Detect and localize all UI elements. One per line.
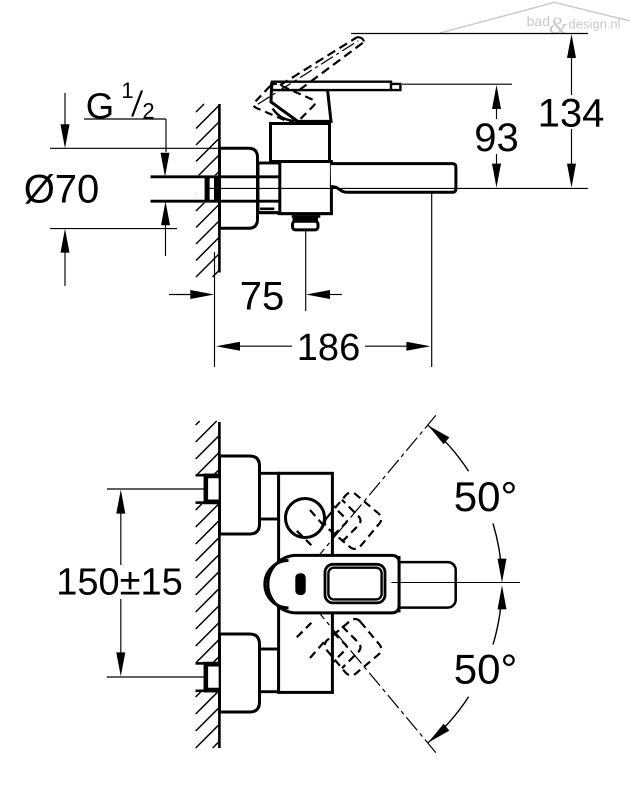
svg-text:1: 1 xyxy=(121,78,133,103)
svg-text:Ø70: Ø70 xyxy=(24,167,100,211)
svg-text:50°: 50° xyxy=(454,645,518,692)
svg-text:150±15: 150±15 xyxy=(56,561,183,603)
svg-text:134: 134 xyxy=(538,91,605,135)
svg-text:design.nl: design.nl xyxy=(569,17,621,32)
svg-text:75: 75 xyxy=(240,275,285,319)
svg-text:2: 2 xyxy=(142,99,154,124)
svg-text:&: & xyxy=(549,14,568,40)
svg-text:186: 186 xyxy=(297,327,360,369)
svg-text:93: 93 xyxy=(474,116,519,160)
svg-text:50°: 50° xyxy=(454,473,518,520)
svg-text:bad: bad xyxy=(527,13,550,29)
svg-text:G: G xyxy=(86,86,114,127)
